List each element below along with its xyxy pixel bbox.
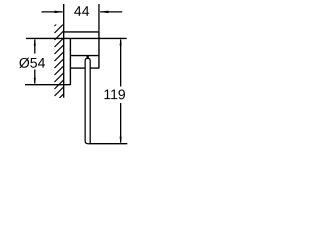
svg-text:Ø54: Ø54 bbox=[19, 55, 46, 71]
dim 44 right arrow line bbox=[100, 11, 122, 13]
lower lip edge left of rod bbox=[70, 67, 85, 69]
lower lip edge right of rod bbox=[90, 67, 99, 69]
plate bottom edge / extension line bbox=[25, 84, 70, 86]
dim 119 lower line + down arrow bbox=[120, 103, 122, 143]
plate top edge / extension line bbox=[26, 37, 127, 39]
wall hatch bbox=[55, 17, 65, 104]
arm bottom edge bbox=[70, 55, 99, 57]
svg-text:44: 44 bbox=[74, 3, 90, 19]
rod top nub bbox=[86, 56, 88, 59]
holder front face bbox=[98, 31, 100, 68]
dim Ø54 lower stem + down arrow bbox=[34, 70, 36, 84]
dim 119 upper line + up arrow bbox=[120, 40, 122, 87]
rod (holder bar side view) bbox=[85, 59, 90, 144]
holder arm top edge bbox=[64, 31, 99, 33]
dim 44 right extension line bbox=[98, 4, 100, 31]
dim 119 bottom extension line bbox=[90, 143, 127, 145]
dim Ø54 upper stem + up arrow bbox=[34, 40, 36, 54]
svg-text:119: 119 bbox=[103, 86, 126, 102]
dim 44 left arrow line bbox=[42, 11, 63, 13]
wall face line bbox=[63, 4, 65, 98]
plate front edge bbox=[69, 38, 71, 85]
